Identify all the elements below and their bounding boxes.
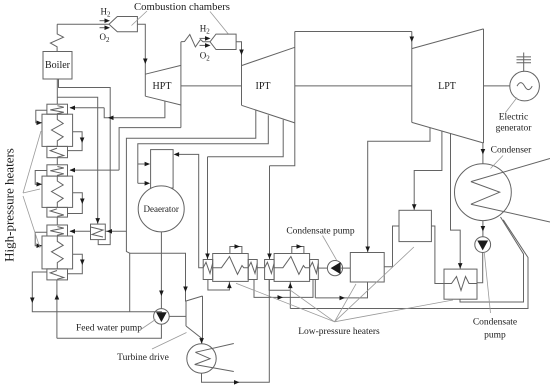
pointer to CC1	[132, 11, 148, 26]
HPT exhaust extraction to heater 2	[119, 128, 181, 171]
svg-text:Deaerator: Deaerator	[143, 204, 178, 214]
feedwater riser below heater 3	[56, 280, 58, 338]
condensate line A to B	[257, 267, 264, 269]
deaerator vessel	[138, 186, 184, 232]
heater A left drain-cooler box	[203, 260, 213, 280]
boiler	[43, 52, 72, 80]
pointers from Low-pressure heaters label	[236, 283, 335, 322]
svg-text:Condenser: Condenser	[491, 146, 532, 156]
O2 inlet arrow CC2	[200, 44, 207, 46]
turbine drive condensate return	[202, 280, 270, 383]
shaft HPT-IPT	[181, 85, 242, 87]
svg-text:High-pressure heaters: High-pressure heaters	[2, 148, 17, 262]
IPT exhaust extraction E4 to heater B	[270, 123, 295, 166]
heater box2	[399, 210, 431, 241]
wire vent line from feed train	[57, 97, 97, 224]
wire heater C bottom to inner return line	[460, 217, 524, 302]
wire boiler steam line to combustion chamber 1	[57, 23, 109, 25]
wire boiler blowdown line	[59, 79, 111, 240]
heater A right box	[248, 260, 257, 280]
crossover pipe rectangle top	[295, 31, 412, 33]
HP heater 3 drain cooler box	[47, 269, 68, 280]
superheater zigzag above boiler	[50, 24, 63, 51]
svg-text:Turbine drive: Turbine drive	[117, 353, 169, 363]
HP heater 3 desuperheater box	[47, 225, 68, 236]
pointer to CC2	[210, 12, 229, 35]
wire LPT exhaust to condenser	[482, 143, 484, 164]
electric generator G	[510, 71, 540, 101]
LPT extraction b2 to heater box2	[414, 131, 442, 211]
steam arrow into heater 2	[70, 169, 119, 171]
deaerator outlet split	[130, 232, 186, 309]
shaft IPT-LPT	[295, 85, 412, 87]
drain stub B to box1	[315, 280, 367, 298]
svg-text:Boiler: Boiler	[45, 60, 71, 71]
pointer to P2	[323, 236, 337, 260]
svg-text:Condensate: Condensate	[473, 318, 517, 328]
condenser	[455, 164, 512, 221]
wire HPT exhaust riser and cold reheat line	[180, 42, 182, 128]
wire CC2 outlet to IPT inlet	[236, 42, 241, 106]
HP heater 1 right drain loop	[68, 132, 83, 151]
condensate return riser to deaerator	[178, 154, 204, 267]
heater B right box	[310, 260, 319, 280]
steam arrow into heater 3	[70, 230, 91, 232]
steam inlet to heater B	[269, 166, 271, 260]
low-pressure heater B main shell	[274, 254, 310, 282]
heater drain line to pump suction	[32, 272, 162, 312]
combustion chamber CC2	[210, 34, 236, 49]
generator earth connection	[517, 53, 532, 72]
deaerator column	[151, 150, 174, 188]
heater B left box	[265, 260, 275, 280]
HP heater 1 shell	[42, 114, 73, 146]
pointer to P3	[140, 320, 156, 331]
svg-text:Feed water pump: Feed water pump	[76, 324, 142, 334]
cooling water outlet diagonal	[471, 204, 550, 222]
condensate pump P2	[327, 261, 342, 276]
LPT extraction b1 to heater box1	[368, 128, 430, 253]
cooling water inlet diagonal	[471, 159, 550, 182]
P3 discharge to HP heaters	[57, 324, 161, 338]
turbine LPT	[412, 29, 484, 143]
wire P2 to box1	[341, 267, 350, 269]
reheater zigzag	[181, 35, 210, 47]
HP heater 2 left loop	[35, 171, 47, 185]
wire P1 outlet to heater C	[477, 252, 483, 283]
IPT extraction E3 to heater A	[208, 120, 284, 157]
HP heater 3 right drain loop	[68, 254, 83, 273]
heater B zigzag	[274, 257, 310, 275]
HPT extraction to heater 1	[104, 102, 165, 118]
HP heater 1 left loop	[36, 110, 47, 123]
turbine drive exhaust to condenser	[201, 339, 204, 344]
turbine IPT	[242, 47, 295, 123]
drain cooler bottom loop	[98, 240, 110, 245]
svg-text:Condensate pump: Condensate pump	[286, 227, 355, 237]
HP heater 2 shell	[42, 176, 73, 207]
heater A top vent loop	[230, 247, 242, 254]
HP heater 2 desuperheater box	[47, 165, 68, 176]
low-pressure heater A main shell	[213, 254, 249, 282]
deaerator inlet stubs	[138, 163, 147, 165]
H2 inlet arrow CC1	[100, 20, 107, 22]
O2 inlet arrow CC1	[100, 27, 107, 29]
svg-text:pump: pump	[484, 331, 506, 341]
svg-text:Low-pressure heaters: Low-pressure heaters	[298, 327, 380, 337]
condensate pump P1	[475, 237, 491, 253]
condensate line B to pump P2	[318, 267, 327, 269]
feedwater line through heaters to boiler	[56, 79, 58, 225]
wire LPT left edge column	[411, 32, 413, 123]
wire box2 drain to heater C	[431, 226, 444, 284]
turbine drive shaft	[169, 315, 186, 317]
shaft LPT-generator	[484, 85, 510, 87]
svg-text:LPT: LPT	[438, 81, 456, 92]
svg-text:IPT: IPT	[256, 81, 271, 92]
pointer to P1	[484, 253, 490, 313]
svg-text:Combustion chambers: Combustion chambers	[134, 1, 230, 13]
pointer to generator	[506, 98, 518, 113]
combustion chamber CC1	[109, 17, 137, 32]
IPT extraction E1 to drain cooler	[105, 111, 256, 232]
wire CC1 outlet to HPT inlet	[137, 24, 145, 96]
wire box1 to box2	[384, 226, 399, 267]
svg-text:generator: generator	[496, 124, 533, 134]
wire outer drain bus to condenser	[290, 220, 528, 309]
svg-text:Electric: Electric	[499, 113, 529, 123]
HP heater 2 drain cooler box	[47, 207, 68, 217]
pointers from High-pressure heaters label	[23, 131, 41, 193]
HP heater 3 shell	[42, 236, 73, 269]
turbine drive condenser	[187, 344, 216, 373]
low-pressure heater C	[444, 269, 477, 299]
heater A bottom loop	[208, 280, 230, 291]
heater box1	[350, 253, 384, 283]
svg-text:HPT: HPT	[153, 81, 172, 92]
HP heater 1 desuperheater box	[47, 104, 68, 114]
steam arrow into heater 1	[70, 107, 104, 109]
pointer to turbine drive	[152, 333, 187, 350]
HP heater 3 left loop	[35, 232, 47, 245]
pointer to condenser	[491, 156, 504, 169]
turbine HPT	[145, 65, 181, 105]
feed water pump P3	[154, 309, 170, 325]
heater B top vent loop	[292, 247, 304, 254]
wire extraction drain to feed line	[126, 231, 129, 311]
H2 inlet arrow CC2	[200, 37, 207, 39]
drain stub A to B	[254, 280, 313, 298]
LPT extraction b3 to heater C	[451, 133, 461, 269]
wire condenser to condensate pump P1	[482, 221, 484, 237]
heater A zigzag	[213, 257, 249, 275]
wire IPT right edge / crossover column	[294, 32, 296, 123]
small heat exchanger box (external drain cooler)	[91, 224, 106, 240]
turbine drive condenser cooling lines	[195, 344, 234, 372]
HP heater 1 drain cooler box	[47, 146, 68, 157]
turbine drive	[186, 296, 203, 339]
HP heater 2 right drain loop	[68, 193, 83, 214]
wire heater B bottom loop to drain bus	[289, 290, 291, 308]
steam inlet to heater A	[207, 157, 209, 260]
IPT extraction E2 to deaerator	[138, 115, 268, 183]
heater B bottom loop	[269, 280, 290, 291]
